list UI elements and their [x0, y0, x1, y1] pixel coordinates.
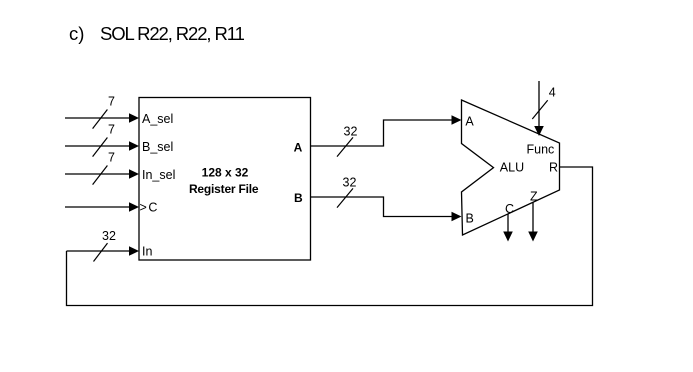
wire Func input (4-bit bus)	[534, 81, 544, 136]
svg-text:ALU: ALU	[500, 161, 524, 175]
svg-text:32: 32	[344, 125, 358, 139]
svg-text:Func: Func	[527, 143, 555, 157]
svg-text:R: R	[549, 161, 558, 175]
wire R output feedback loop (R to In)	[67, 167, 593, 306]
bus slash on In_sel wire	[93, 166, 108, 185]
svg-text:C: C	[505, 202, 514, 216]
svg-text:A_sel: A_sel	[142, 112, 173, 126]
svg-text:>: >	[140, 200, 147, 214]
bus slash on A bus	[337, 137, 353, 156]
title text "c) SOL R22, R22, R11"	[69, 23, 245, 44]
svg-text:In_sel: In_sel	[142, 168, 175, 182]
wire B_sel input (7-bit bus)	[65, 141, 139, 151]
wire A bus: register file A output to ALU A input (32-bit)	[311, 115, 462, 146]
svg-text:A: A	[294, 141, 303, 155]
svg-text:4: 4	[549, 86, 556, 100]
op-amp/ALU U2 body	[462, 100, 560, 235]
svg-text:B: B	[294, 191, 303, 205]
bus slash on In wire	[94, 243, 108, 261]
svg-text:SOL R22, R22, R11: SOL R22, R22, R11	[100, 23, 245, 44]
wire In_sel input (7-bit bus)	[65, 169, 139, 179]
wire B bus: register file B output to ALU B input (32-bit)	[311, 197, 462, 221]
svg-text:c): c)	[69, 23, 84, 44]
bus slash on B bus	[337, 188, 353, 207]
bus slash on B_sel wire	[93, 138, 108, 157]
register file value label "128 x 32 / Register File"	[189, 166, 259, 197]
svg-text:32: 32	[343, 176, 357, 190]
svg-text:B_sel: B_sel	[142, 140, 173, 154]
wire A_sel input (7-bit bus)	[65, 113, 139, 123]
register file U1 (128 x 32 Register File)	[139, 98, 311, 261]
svg-text:C: C	[148, 200, 157, 214]
svg-text:B: B	[466, 212, 474, 226]
bus slash on A_sel wire	[93, 110, 108, 129]
wire Z flag output arrow	[528, 202, 538, 242]
svg-text:7: 7	[108, 151, 115, 165]
svg-text:A: A	[465, 115, 474, 129]
bus slash on Func wire	[532, 100, 547, 119]
svg-text:128 x 32: 128 x 32	[202, 166, 249, 180]
svg-text:7: 7	[108, 123, 115, 137]
wire C flag output arrow	[503, 214, 513, 242]
svg-text:7: 7	[108, 95, 115, 109]
wire In input (32-bit bus, fed back from R)	[67, 246, 140, 256]
svg-text:Z: Z	[530, 189, 538, 203]
svg-text:Register File: Register File	[189, 182, 259, 196]
svg-text:32: 32	[102, 229, 116, 243]
wire C input	[65, 202, 139, 212]
svg-text:In: In	[142, 245, 152, 259]
